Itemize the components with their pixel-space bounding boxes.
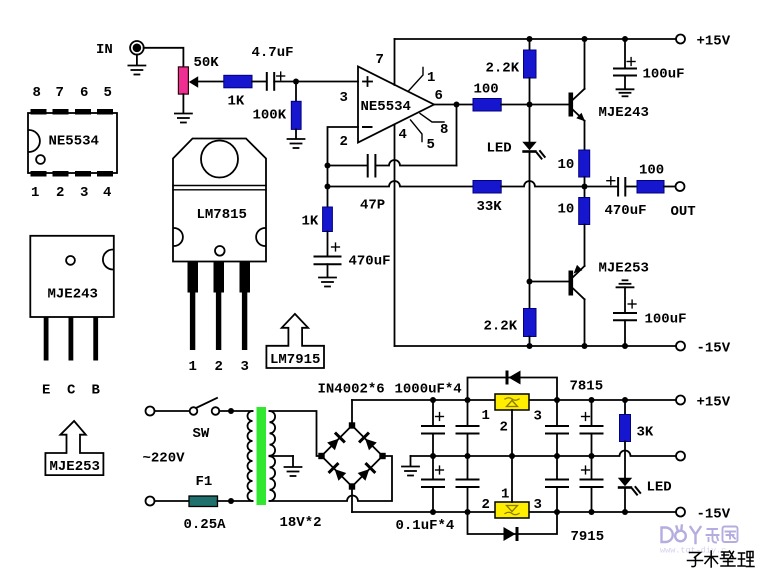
svg-text:7815: 7815 [570,379,604,395]
svg-text:47P: 47P [360,198,385,214]
resistor R9 10 (lower) [579,198,590,225]
svg-text:6: 6 [435,88,443,104]
node -V rail x467 [465,509,471,515]
resistor R10 2.2K (bottom) [524,309,537,337]
svg-text:OUT: OUT [671,204,696,220]
node 0V rail x557 [554,453,560,459]
LM7915 callout arrow [266,314,324,368]
wire pin 2 to feedback node [328,127,359,166]
wire output down to 47P line [456,105,458,166]
svg-text:4.7uF: 4.7uF [252,45,294,61]
wire 100 to OUT [664,186,676,188]
plus input mark [363,77,372,86]
wire 2.2K to node E [529,78,531,105]
svg-text:7: 7 [56,85,64,101]
glyph mu [705,551,718,567]
wire 2.2K to -15V rail [529,337,531,347]
svg-text:2: 2 [56,185,64,201]
resistor R5 100 [473,99,501,112]
plus sign C4 [627,58,635,66]
left notch [174,228,183,246]
svg-text:100K: 100K [253,108,287,124]
wire bridge minus down to -V rail [351,487,353,513]
svg-text:2: 2 [340,134,348,150]
capacitor C4 100uF [614,69,636,76]
svg-text:1: 1 [501,487,509,503]
transistor Q2 MJE253 [569,265,585,346]
-15V rail (amp bottom) [395,345,677,347]
svg-text:2.2K: 2.2K [486,61,520,77]
wire node G to 470uF [585,186,618,188]
filter cap C8 1000uF (bottom, x433) [422,456,444,512]
bridge rectifier frame [322,426,383,487]
wire node D down to 1K [327,187,329,208]
node C (output) [454,102,460,108]
minus input mark [363,126,372,128]
plus sign C1 [277,72,285,80]
bridge diode D4 (lower left) [328,462,348,482]
tab separation lines [173,185,266,187]
node E [527,102,533,108]
wire node F down to 2.2K [529,282,531,309]
wire C5 to 100 [625,186,637,188]
svg-text:50K: 50K [194,55,220,71]
bridge diode D3 (upper right) [358,432,378,452]
svg-text:470uF: 470uF [605,203,647,219]
bridge diode D2 (upper left) [326,432,346,452]
node -15V Q2 [582,343,588,349]
svg-text:33K: 33K [477,199,503,215]
resistor R7 33K [473,181,501,194]
DIP bottom pins [31,171,114,177]
wire 7915 pin1 to 0V [511,456,513,502]
node 0V rail x467 [465,453,471,459]
svg-text:SW: SW [193,426,210,442]
terminal AC top [146,407,155,416]
bridge diode D5 (lower right) [357,462,377,482]
wire LED to node F with pass-through of 33K rail [529,153,531,282]
wire secondary center tap [270,455,294,457]
ground (pot bottom) [175,94,192,122]
plus sign C3 [332,243,340,251]
svg-text:4: 4 [399,127,407,143]
resistor R1 1K [224,75,252,88]
svg-text:5: 5 [104,85,112,101]
feedback rail left segment with hop over pin4 line [328,181,474,187]
transformer T1 core [257,407,267,505]
node fuse-primary [228,498,234,504]
pot wiper arrow [189,76,198,88]
plus sign C5 [607,177,615,185]
wire 1K to 470uF [327,232,329,257]
wire node E to LED [529,105,531,142]
+V unregulated rail [352,399,676,401]
svg-text:www.tqt-diy.c: www.tqt-diy.c [660,546,726,556]
wire C1 to node A [274,81,296,83]
node -V rail x433 [430,509,436,515]
wire 47P left segment [328,165,368,167]
svg-text:+15V: +15V [697,34,731,50]
wire AC bottom to fuse [155,500,190,502]
MJE243 package drawing [30,236,114,399]
node rail-C4 [622,36,628,42]
mounting hole [201,141,238,178]
svg-text:3: 3 [241,359,249,375]
wire node B down to node D [327,166,329,187]
terminal 0V (psu) [676,452,685,461]
DIP top pins [31,109,114,115]
svg-text:1: 1 [31,185,39,201]
LED D8 (psu) [618,478,640,495]
LED D1 [522,142,544,159]
bridge corner node top [349,422,355,428]
wire 100 to node E [501,104,529,106]
wire 10 to node G [584,177,586,198]
wire output pin 6 [434,104,473,106]
wire C6 to rail [624,320,626,346]
node -V rail x557 [554,509,560,515]
filter cap C7 1000uF (top, x433) [422,400,444,456]
wire input to pot [144,48,184,67]
wire fuse to primary [218,500,253,502]
svg-text:100uF: 100uF [645,312,687,328]
package hole [66,256,75,265]
filter cap C11 0.1uF (top, x557) [546,400,568,456]
node +V rail x625 [622,397,628,403]
terminal -15V (psu) [676,508,685,517]
right notch [256,228,265,246]
capacitor C5 470uF (output) [618,178,625,196]
7815 symbol [505,398,519,407]
wire bridge plus up to +V rail [351,400,353,426]
node 0V rail x433 [430,453,436,459]
svg-text:4: 4 [103,185,111,201]
filter cap C12 0.1uF (bottom, x557) [546,456,568,512]
svg-text:MJE253: MJE253 [50,459,100,475]
leg 1 [188,262,199,351]
regulator U3 7915 [495,502,529,518]
filter cap C10 0.1uF (bottom, x467) [457,456,479,512]
resistor R4 2.2K [524,50,537,78]
ground (0V rail left end) [402,456,419,476]
svg-text:1: 1 [427,70,435,86]
pin 4 wire (V- down to -15V rail) [394,125,396,347]
svg-text:C: C [67,383,76,399]
svg-text:NE5534: NE5534 [361,99,411,115]
ground (C3 bottom) [319,264,336,286]
wire secondary top to bridge [270,411,322,456]
svg-text:LM7815: LM7815 [197,207,247,223]
wire node E to Q1 base [530,104,569,106]
resistor R6 10 (upper) [579,150,590,177]
transformer T1 secondary winding bottom [270,456,276,501]
filter cap C13 1000uF (top, x591) [581,400,603,456]
pin 7 wire (V+ up to +15V rail) [394,39,396,85]
wire 3K to LED (passes 0V rail hop) [624,442,626,478]
ground (input connector) [128,55,145,75]
glyph zi [688,553,703,567]
svg-text:1: 1 [482,408,490,424]
resistor R3 1K (feedback shunt) [323,207,333,232]
plus sign C6 [628,300,636,308]
svg-text:LM7915: LM7915 [270,352,320,368]
LM7815 TO-220 package drawing [173,139,266,376]
DIP notch [29,130,40,152]
svg-text:8: 8 [33,85,41,101]
watermark CJK 乐园 (lavender) [707,527,738,543]
svg-text:3: 3 [534,409,542,425]
capacitor C3 470uF [315,257,341,265]
transistor Q1 MJE243 [569,39,586,150]
watermark DIY logo [662,526,701,544]
node B (feedback top) [325,163,331,169]
svg-text:2: 2 [500,420,508,436]
svg-text:MJE243: MJE243 [599,105,649,121]
svg-text:+15V: +15V [697,395,731,411]
pin 8 stub [420,114,444,123]
capacitor C6 100uF (bottom) [614,313,636,320]
small hole [215,246,225,256]
svg-text:-15V: -15V [697,507,731,523]
wire node A to op-amp pin3 [296,81,358,83]
svg-text:-15V: -15V [697,341,731,357]
svg-text:1: 1 [189,359,197,375]
svg-text:E: E [42,383,50,399]
DIP body [28,113,117,173]
node switch-primary [228,408,234,414]
pin 5 stub [411,120,423,142]
wire LED to -V rail [624,489,626,512]
package body [30,236,114,317]
wire secondary bottom to bridge (hop over bridge minus line) [270,456,393,501]
svg-text:LED: LED [487,141,512,157]
fuse F1 0.25A [189,496,218,507]
svg-text:IN: IN [96,42,113,58]
terminal -15V (amp) [676,342,685,351]
svg-text:LED: LED [647,480,672,496]
glyph li [738,552,754,567]
resistor R11 3K [620,415,631,442]
svg-text:10: 10 [558,202,575,218]
resistor R8 100 (output) [637,181,664,194]
resistor R2 100K [291,101,301,129]
svg-text:6: 6 [80,85,88,101]
inverted ground (C6) [617,280,634,313]
svg-text:~220V: ~220V [143,451,186,467]
bridge corner node bottom [349,483,355,489]
capacitor C1 4.7uF [267,73,274,90]
node -15V 2.2K [527,343,533,349]
glyph zheng [721,551,736,566]
filter cap C9 0.1uF (top, x467) [457,400,479,456]
capacitor C4 100uF wire [624,39,626,69]
svg-text:B: B [92,383,101,399]
svg-text:1K: 1K [228,94,245,110]
node rail-Q1 [582,36,588,42]
svg-text:2.2K: 2.2K [484,319,518,335]
svg-text:2: 2 [215,359,223,375]
svg-text:2: 2 [482,497,490,513]
DIP pin1 dot [36,155,45,164]
svg-text:100uF: 100uF [643,67,685,83]
svg-text:100: 100 [474,82,499,98]
svg-text:0.25A: 0.25A [184,517,227,533]
terminal +15V (psu) [676,396,685,405]
node A [293,79,299,85]
wire rail to 2.2K [529,39,531,50]
ground (100K bottom) [288,129,305,148]
svg-text:NE5534: NE5534 [49,134,99,150]
TO-220 body [173,139,266,262]
wire 10 to Q2 emitter [584,225,586,267]
node 0V rail x512 [509,453,515,459]
potentiometer RP 50K [178,67,188,94]
node G (output node) [582,184,588,190]
ground (C4) [617,76,634,97]
node -V rail x591 [589,509,595,515]
svg-text:F1: F1 [196,474,213,490]
svg-text:10: 10 [558,157,575,173]
NE5534 DIP package drawing [28,85,117,201]
node rail-2.2K [527,36,533,42]
wire 1K to C1 [252,81,266,83]
node +V rail x591 [589,397,595,403]
wire 7815 pin2 to 0V [511,410,513,456]
wire 47P right segment with hop over pin4 line [375,160,456,166]
svg-text:3K: 3K [637,425,654,441]
diode D6 [506,371,521,385]
node +V rail x433 [430,397,436,403]
terminal AC bottom [146,497,155,506]
pin 1 stub [408,68,423,92]
input connector J1 [130,41,144,55]
transformer T1 secondary winding top [270,411,276,456]
terminal +15V (amp) [676,35,685,44]
node +V rail x467 [465,397,471,403]
op-amp U1 NE5534 triangle [358,67,434,143]
wire node A down to R2 [295,82,297,102]
filter cap C14 1000uF (bottom, x591) [581,456,603,512]
leg 2 [214,262,225,351]
capacitor C2 47P [368,155,376,177]
svg-text:1K: 1K [302,214,319,230]
+15V rail (amp top) [395,38,677,40]
svg-text:7915: 7915 [571,529,605,545]
wire AC top to switch [155,410,190,412]
svg-text:1000uF*4: 1000uF*4 [395,382,462,398]
svg-text:3: 3 [534,497,542,513]
node -15V C6 [622,343,628,349]
node F (Q2 base) [527,279,533,285]
node 0V rail x591 [589,453,595,459]
transformer T1 primary winding [248,411,253,501]
switch SW [190,398,220,415]
svg-text:8: 8 [440,122,448,138]
wire switch to primary [219,410,252,412]
svg-text:5: 5 [427,137,435,153]
svg-text:IN4002*6: IN4002*6 [318,382,385,398]
svg-text:0.1uF*4: 0.1uF*4 [396,518,455,534]
svg-text:3: 3 [80,185,88,201]
svg-text:18V*2: 18V*2 [280,515,322,531]
svg-text:MJE253: MJE253 [599,261,649,277]
MJE253 callout arrow [45,421,103,475]
svg-text:7: 7 [376,52,384,68]
legs [44,317,98,361]
0V mid rail (left of hop) [411,451,677,456]
package right notch [103,250,113,270]
svg-text:100: 100 [639,163,664,179]
regulator U2 7815 [495,394,529,410]
terminal OUT [676,182,685,191]
wire node F to Q2 base [530,281,569,283]
bridge corner node left [318,453,324,459]
7915 symbol [505,506,519,515]
wire 33K to node G with hop over LED line [501,181,584,187]
protection diode D6 loop (over 7815) [468,378,558,401]
node +V rail x557 [554,397,560,403]
svg-text:MJE243: MJE243 [48,287,98,303]
svg-text:3: 3 [340,90,348,106]
svg-text:470uF: 470uF [349,254,391,270]
bridge corner node right [379,453,385,459]
wire wiper to 1K [198,81,224,83]
signature CJK 子木整理 [688,551,755,567]
diode D7 [504,527,519,541]
leg 3 [240,262,251,351]
node D (feedback lower) [325,184,331,190]
-V unregulated rail [352,511,676,513]
protection diode D7 loop (under 7915) [468,512,558,534]
ground (center tap) [285,456,302,476]
wire +V rail to 3K [624,400,626,415]
node -V rail x625 [622,509,628,515]
